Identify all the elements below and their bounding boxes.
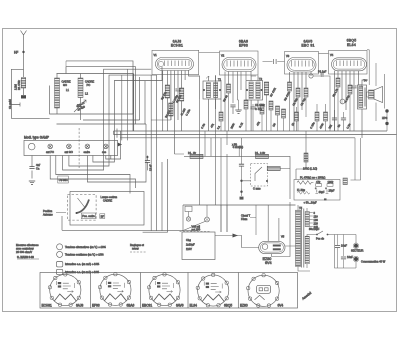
resistor: [348, 85, 352, 94]
bus line 3: [120, 137, 355, 139]
svg-text:6V4: 6V4: [278, 304, 284, 308]
svg-text:Intensites c.a. (en mA) +-10%: Intensites c.a. (en mA) +-10%: [65, 262, 100, 266]
svg-text:Filam: Filam: [241, 217, 247, 221]
terminal HPS: [385, 109, 388, 112]
wire risers: [134, 74, 145, 132]
svg-text:Lampe cadran: Lampe cadran: [101, 195, 118, 199]
boxed label CV-36C: [58, 176, 69, 183]
resistor: [288, 82, 292, 91]
wire: [151, 120, 184, 154]
capacitor 10nF: [343, 235, 345, 269]
svg-text:Modl. type GAMP: Modl. type GAMP: [24, 136, 49, 140]
bus line 1: [114, 130, 388, 132]
V5 wires: [215, 202, 296, 257]
svg-text:V1: V1: [154, 53, 158, 57]
switch wiper: [77, 200, 90, 214]
resistor PL 2k: [190, 154, 203, 158]
svg-text:6BQ5: 6BQ5: [224, 304, 232, 308]
cadre box: [50, 74, 133, 115]
legend item 2: [57, 251, 63, 257]
node HF: [22, 51, 24, 53]
svg-text:ant GO: ant GO: [65, 150, 73, 154]
arrow pointer: [118, 143, 123, 147]
resistor second row: [169, 103, 173, 116]
svg-text:P1 1nF: P1 1nF: [318, 70, 327, 74]
legend item 4: [56, 269, 62, 274]
svg-text:EL84: EL84: [347, 43, 356, 47]
svg-text:GO: GO: [63, 83, 67, 87]
svg-text:Antenne: Antenne: [43, 213, 53, 217]
svg-text:50+10μF: 50+10μF: [309, 227, 320, 231]
svg-text:100k: 100k: [328, 180, 334, 184]
resistor: [267, 166, 280, 170]
svg-text:V2: V2: [221, 54, 225, 58]
resistor above bus: [282, 109, 286, 118]
resistor: [165, 85, 169, 98]
heater line: [183, 204, 296, 206]
V3 pin wires: [290, 72, 312, 131]
terminal ant PO: [48, 144, 53, 149]
svg-text:PO: PO: [87, 83, 91, 87]
resistor above bus: [276, 106, 280, 115]
svg-text:110: 110: [314, 215, 319, 219]
tube V4 shield box: [329, 51, 368, 75]
fuse box: [185, 206, 192, 211]
resistor on bus: [219, 112, 223, 121]
socket base V3: [149, 274, 180, 305]
svg-text:ant PO: ant PO: [46, 150, 54, 154]
legend item 1: [57, 244, 63, 250]
selector switch: [316, 234, 318, 236]
terminal HPS2: [385, 122, 388, 125]
svg-text:Tensions continues (en V.) +-: Tensions continues (en V.) +-10%: [65, 253, 104, 257]
svg-text:20 000 ohm/V: 20 000 ohm/V: [16, 250, 32, 254]
svg-text:Tensions alternatives (en V.): Tensions alternatives (en V.) +-10%: [65, 245, 106, 249]
wire: [11, 69, 49, 118]
svg-text:10nF: 10nF: [341, 244, 347, 248]
capacitor on bus: [341, 118, 346, 120]
svg-text:HF: HF: [14, 51, 18, 55]
svg-text:EF93: EF93: [239, 44, 248, 48]
svg-text:4 MΩ(lin): 4 MΩ(lin): [233, 145, 244, 149]
wire bottom rail: [62, 216, 198, 230]
tube V3: [287, 58, 316, 73]
resistor: [343, 178, 347, 185]
resistor zigzag: [297, 181, 313, 185]
tube V4: [332, 58, 367, 71]
capacitor above bus: [250, 107, 255, 109]
svg-text:12 nF: 12 nF: [149, 164, 153, 171]
wire bundle from module: [50, 156, 135, 189]
tube V2: [222, 58, 256, 72]
tube V1: [156, 58, 194, 71]
svg-text:25μF: 25μF: [329, 189, 335, 193]
svg-text:2x10μF: 2x10μF: [186, 243, 195, 247]
svg-text:Consommation 40 W: Consommation 40 W: [361, 260, 386, 264]
svg-text:Chg: Chg: [186, 238, 191, 242]
T5 top wires: [298, 205, 310, 271]
capacitor 10nF: [335, 235, 357, 269]
socket panel box: [40, 273, 298, 309]
resistor 47k: [316, 184, 322, 187]
resistor on bus: [324, 112, 328, 121]
wire V1 to V2: [199, 52, 220, 54]
svg-text:Reglages et: Reglages et: [130, 243, 144, 247]
svg-text:BF: BF: [101, 214, 105, 218]
wire T2 to V3: [263, 61, 285, 63]
svg-text:100Ω (L 1Ω): 100Ω (L 1Ω): [303, 167, 317, 171]
terminal secteur 2: [354, 257, 358, 261]
terminal cadre: [85, 144, 90, 149]
V1 pin wires: [163, 71, 200, 155]
wire: [57, 120, 147, 124]
switch box: [70, 192, 144, 226]
svg-text:CADRE: CADRE: [103, 198, 112, 202]
wire verticals mid: [200, 75, 242, 232]
node circle: [340, 99, 345, 104]
svg-text:EZ80: EZ80: [263, 257, 272, 261]
svg-text:40μF: 40μF: [319, 190, 325, 194]
capacitor on bus: [332, 118, 337, 120]
svg-text:P.L. 2k: P.L. 2k: [188, 151, 196, 155]
volume control line: [184, 156, 290, 199]
svg-text:EZ80: EZ80: [240, 304, 248, 308]
resistor R1: [21, 78, 25, 88]
stub connector: [11, 103, 20, 107]
tone switch network: [239, 164, 244, 166]
node circle: [309, 74, 313, 78]
socket base V2: [100, 274, 131, 305]
wire risers to module: [122, 69, 128, 140]
svg-text:Pos. cadre: Pos. cadre: [82, 214, 95, 218]
resistor: [336, 78, 340, 87]
svg-text:10nF: 10nF: [347, 255, 353, 259]
resistor on bus: [295, 112, 299, 121]
dashed wire: [180, 231, 211, 233]
node: [324, 198, 327, 200]
dashed guide: [78, 128, 80, 168]
B+ dropper box: [294, 180, 340, 201]
svg-text:47k: 47k: [316, 180, 321, 184]
socket base V5: [248, 275, 279, 306]
svg-text:avec controleur: avec controleur: [16, 246, 34, 250]
V2 pin wires: [225, 72, 256, 132]
speaker HP: [369, 90, 375, 99]
resistor: [296, 88, 300, 97]
svg-text:V4: V4: [330, 53, 334, 57]
svg-text:6AJ8: 6AJ8: [76, 304, 83, 308]
svg-text:2.2M: 2.2M: [14, 84, 18, 90]
socket base V4: [198, 275, 229, 306]
taps: [309, 213, 313, 227]
svg-text:ECH81: ECH81: [42, 304, 53, 308]
resistor above bus: [244, 100, 248, 109]
resistor above bus: [260, 105, 264, 114]
ground: [235, 110, 241, 113]
svg-text:4n7: 4n7: [36, 163, 41, 167]
wire loops to V1: [66, 61, 136, 131]
terminal ant GO: [67, 144, 72, 149]
resistor: [179, 88, 183, 101]
svg-text:EBC91: EBC91: [142, 304, 152, 308]
svg-text:C. MANS 9-63: C. MANS 9-63: [17, 255, 34, 259]
capacitor C1: [23, 88, 25, 95]
svg-text:V3: V3: [286, 54, 290, 58]
value labels above bus: [200, 121, 352, 130]
resistor PL 2.2k: [256, 154, 269, 158]
lamp circle: [186, 217, 190, 221]
resistor: [227, 84, 231, 93]
svg-text:EF93: EF93: [92, 304, 100, 308]
svg-text:EL84: EL84: [190, 304, 198, 308]
wire tall risers: [143, 75, 168, 232]
coil L2 CADRE PO: [78, 78, 83, 98]
svg-text:EBC 91: EBC 91: [301, 44, 314, 48]
lamp circle: [205, 217, 210, 222]
svg-text:6V4: 6V4: [265, 261, 272, 265]
dashed switch box: [251, 164, 268, 187]
socket base V1: [50, 274, 81, 305]
svg-text:retour: retour: [132, 246, 139, 250]
tube V3 shield box: [285, 52, 319, 75]
resistor: [264, 82, 268, 95]
capacitor coupling: [274, 59, 277, 64]
antenna: [21, 31, 27, 78]
svg-text:Ch gn/bl: Ch gn/bl: [8, 99, 12, 109]
svg-text:ECH81: ECH81: [171, 44, 183, 48]
resistor: [304, 88, 308, 97]
resistor above bus: [269, 101, 273, 110]
ground: [29, 181, 35, 184]
wire: [307, 235, 317, 269]
mains box: [182, 232, 215, 260]
svg-text:Position: Position: [43, 209, 53, 213]
capacitor 12n: [147, 156, 149, 171]
boxed label BF: [100, 214, 105, 219]
svg-text:6BA6: 6BA6: [127, 304, 135, 308]
svg-text:+ 50...10μF: + 50...10μF: [304, 200, 318, 204]
svg-text:osc: osc: [102, 151, 107, 154]
terminal osc: [104, 144, 109, 149]
wire riser to bus: [114, 129, 118, 138]
svg-text:V5: V5: [281, 235, 285, 239]
wire: [221, 205, 227, 232]
svg-text:CV-36C: CV-36C: [59, 178, 68, 182]
bus line 2: [114, 134, 397, 136]
dashed switch frame: [67, 195, 96, 221]
svg-text:PL 470kΩ ac + 250kΩ: PL 470kΩ ac + 250kΩ: [300, 176, 325, 180]
capacitor: [175, 89, 180, 91]
wire V3 to V4: [319, 53, 329, 55]
svg-text:Ca: Ca: [36, 166, 40, 170]
svg-text:Pos de: Pos de: [316, 237, 325, 241]
svg-text:130: 130: [314, 218, 319, 222]
V4 pin wires: [335, 71, 363, 131]
capacitor 4n7: [31, 156, 33, 179]
variable capacitor C7: [74, 100, 86, 112]
tube V2 shield box: [220, 51, 259, 75]
wire: [351, 138, 361, 180]
resistor on bus: [315, 112, 319, 121]
svg-text:P.L. 2.2k: P.L. 2.2k: [255, 151, 266, 155]
capacitor: [351, 86, 356, 88]
svg-text:SECTEUR: SECTEUR: [351, 249, 364, 253]
wire plate to T4: [369, 50, 384, 121]
svg-text:110V: 110V: [186, 247, 192, 251]
legend item 3: [56, 262, 62, 267]
wire with arrow: [233, 234, 239, 238]
svg-text:cadre: cadre: [84, 150, 91, 154]
tube V1 shield box: [152, 50, 199, 74]
svg-text:6AV6: 6AV6: [176, 304, 184, 308]
coil L1 CADRE GO: [55, 78, 60, 108]
boxed label position cadre: [81, 213, 95, 219]
svg-text:Mesures effectuees: Mesures effectuees: [16, 243, 39, 247]
capacitor: [230, 105, 235, 107]
svg-text:pot 250: pot 250: [192, 228, 201, 232]
svg-text:220: 220: [314, 222, 319, 226]
capacitor P1: [313, 76, 330, 131]
wire: [296, 131, 306, 180]
svg-text:C mus: C mus: [253, 186, 261, 190]
terminal circle: [28, 143, 35, 150]
terminal secteur: [354, 244, 358, 248]
